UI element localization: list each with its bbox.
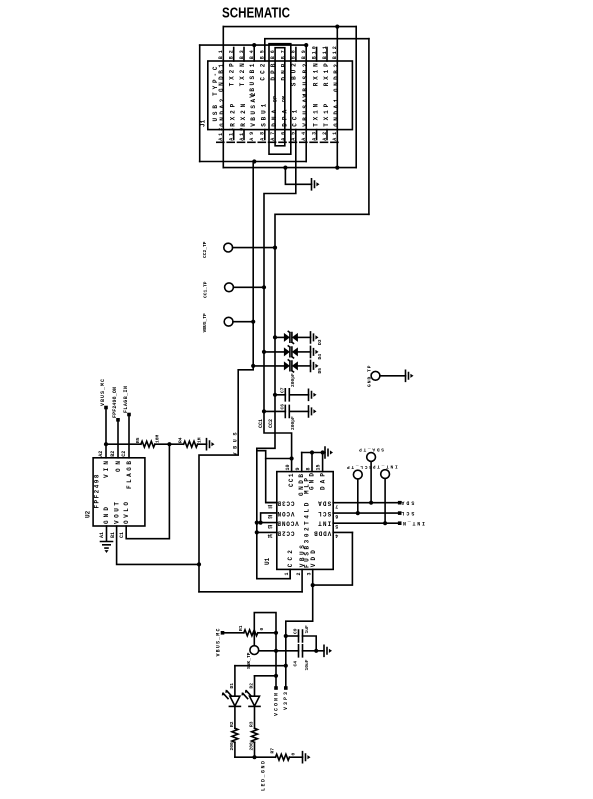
svg-text:GND: GND: [308, 473, 315, 490]
pin B10 lead: [316, 48, 318, 62]
svg-text:200pF: 200pF: [290, 373, 296, 387]
pin B8 lead: [295, 48, 297, 62]
wire VDD down to V3P3 column: [286, 585, 313, 688]
ground: [312, 179, 320, 190]
svg-text:R7: R7: [270, 748, 276, 754]
wire V3P3 row to LED D1: [235, 665, 286, 667]
svg-text:B1: B1: [110, 532, 116, 538]
svg-text:J1: J1: [200, 119, 207, 127]
pin A8 lead: [264, 130, 266, 140]
wire CC1 pin11 branch: [266, 459, 292, 503]
pin B2 lead: [233, 48, 235, 62]
svg-text:14: 14: [268, 533, 273, 539]
svg-text:CC1: CC1: [288, 473, 295, 487]
wire VBUS left vertical: [199, 45, 201, 161]
pin 10 CC1: [290, 456, 294, 460]
ground: [325, 447, 333, 458]
svg-text:CC2_TP: CC2_TP: [202, 241, 208, 258]
svg-text:10: 10: [285, 464, 291, 470]
net flag FPF2498_ON: [112, 387, 120, 422]
svg-text:C7: C7: [280, 387, 286, 393]
svg-text:A11: A11: [229, 128, 235, 141]
wire VIN lead: [105, 408, 107, 458]
pin 8 GND: [311, 453, 313, 472]
ground: [324, 645, 332, 656]
svg-text:1M: 1M: [197, 437, 203, 443]
svg-text:DP: DP: [272, 96, 278, 102]
wire GND right side vertical: [355, 27, 357, 168]
pin 9 GNDB: [301, 453, 303, 472]
wire GND top bus: [223, 26, 356, 28]
net flag VBUS_MC: [100, 379, 108, 409]
svg-text:GND_TP: GND_TP: [366, 365, 372, 387]
wire CC2 column: [257, 214, 369, 578]
svg-text:B10: B10: [311, 46, 317, 59]
pin 5 INT: [333, 522, 400, 524]
svg-text:GND: GND: [103, 507, 110, 524]
svg-text:2: 2: [296, 572, 302, 575]
net flag VBUS_MC bottom: [221, 631, 225, 635]
svg-text:C4: C4: [293, 661, 299, 667]
svg-text:VBUS_MC: VBUS_MC: [216, 629, 222, 657]
svg-text:VBUS_TP: VBUS_TP: [202, 313, 208, 333]
wire FLAGB lead: [128, 415, 130, 458]
wire R5-R4 junction: [155, 443, 184, 445]
svg-text:B2: B2: [110, 451, 116, 457]
svg-text:CC2: CC2: [260, 63, 267, 80]
testpoint SCL_TP: [353, 470, 362, 479]
wire ON lead: [117, 420, 119, 458]
testpoint SDA_TP: [367, 453, 376, 462]
capacitor C9 1uF: [286, 635, 299, 637]
svg-text:SCL: SCL: [401, 510, 414, 516]
svg-text:D1: D1: [229, 683, 235, 689]
testpoint SNK_TP: [250, 646, 259, 655]
pin 2 VBUS: [301, 569, 303, 591]
svg-text:4: 4: [335, 533, 338, 539]
testpoint INT_TP: [381, 470, 390, 479]
pin 4 VDDB: [333, 531, 352, 533]
svg-text:R5: R5: [135, 437, 141, 443]
LED D2: [241, 676, 260, 757]
svg-text:SCL_TP: SCL_TP: [347, 464, 372, 470]
pin 15 DAP: [322, 453, 324, 472]
svg-text:INT: INT: [318, 520, 331, 527]
svg-text:C1: C1: [119, 532, 125, 538]
DP hairpin inner: [275, 48, 285, 146]
pin 3 VDD: [312, 569, 314, 585]
svg-text:VBUS_MC: VBUS_MC: [100, 379, 106, 406]
connector J1 body: [208, 61, 353, 130]
svg-text:D4: D4: [317, 354, 323, 360]
svg-text:5: 5: [335, 523, 338, 529]
wire B12 GNDB2 lead down through body: [336, 27, 338, 168]
wire VDDB wrap to VDD: [313, 532, 353, 585]
pin 11 CC3B: [266, 502, 277, 504]
wire GND stub to ground: [285, 168, 311, 185]
svg-text:VDD: VDD: [310, 550, 317, 567]
ground: [101, 542, 113, 554]
testpoint VBUS_TP: [224, 317, 233, 326]
capacitor C6 on CC1: [262, 404, 317, 430]
wire SNK_TP riser to VCONN column: [254, 613, 276, 688]
wire VBUS bottom bus: [200, 161, 307, 163]
U1 FUSB302: [264, 472, 333, 570]
wire VBUS through body B9/A4: [305, 45, 307, 161]
wire CC2 top: [265, 39, 369, 61]
svg-text:0: 0: [259, 628, 265, 631]
svg-text:SCL: SCL: [318, 510, 331, 517]
svg-text:U1: U1: [264, 557, 271, 565]
svg-text:15: 15: [316, 464, 322, 470]
svg-text:9: 9: [295, 467, 301, 470]
TVS D3 on CC2: [273, 331, 323, 345]
svg-text:R4: R4: [178, 437, 184, 443]
wire LED_GND row: [235, 756, 276, 758]
svg-text:200: 200: [229, 742, 235, 751]
net flag V3P3: [284, 686, 288, 690]
svg-text:10M: 10M: [155, 434, 161, 443]
pin A10 lead: [243, 130, 245, 140]
testpoint CC2_TP: [224, 243, 233, 252]
TVS D4 on CC1: [262, 346, 323, 360]
svg-text:SDA_TP: SDA_TP: [359, 447, 384, 453]
svg-text:FPF2498_ON: FPF2498_ON: [112, 387, 118, 418]
svg-text:SDA: SDA: [401, 500, 414, 506]
wire B4 lead: [253, 45, 255, 61]
pin 13 VCONB: [257, 522, 277, 524]
testpoint GND_TP right: [366, 365, 413, 387]
svg-text:12: 12: [268, 513, 273, 519]
svg-text:LED_GND: LED_GND: [261, 761, 267, 791]
ground: [303, 752, 311, 763]
svg-text:1uF: 1uF: [304, 625, 310, 634]
svg-text:200: 200: [248, 742, 254, 751]
svg-text:VCONB: VCONB: [277, 520, 299, 527]
wire VOUT to VBUS column: [117, 526, 199, 564]
net flag VCONN: [274, 686, 278, 690]
resistor R7 0: [276, 754, 290, 760]
svg-text:D3: D3: [317, 339, 323, 345]
svg-text:SDA: SDA: [318, 500, 331, 507]
svg-text:D5: D5: [317, 368, 323, 374]
pin 12 VCON: [261, 513, 277, 523]
svg-text:VDDB: VDDB: [314, 529, 331, 536]
capacitor C7 on CC2: [273, 373, 317, 401]
net flag SCL: [398, 511, 402, 515]
wire VBUS row to pin2: [199, 591, 302, 593]
wire TP to VCONN column and C4: [259, 650, 299, 652]
svg-text:10uF: 10uF: [304, 659, 310, 670]
svg-text:D2: D2: [248, 683, 254, 689]
wire OVLO to divider tap: [126, 444, 169, 539]
svg-text:B11: B11: [322, 46, 328, 59]
svg-text:13: 13: [268, 523, 273, 529]
svg-text:1: 1: [284, 572, 290, 575]
svg-text:R2: R2: [229, 721, 235, 727]
pin A3 lead: [316, 130, 318, 140]
wire CC2 right vertical: [368, 39, 370, 215]
svg-text:11: 11: [268, 503, 273, 509]
svg-text:R3: R3: [248, 721, 254, 727]
svg-text:FLAGB_IN: FLAGB_IN: [123, 386, 129, 413]
pin B3 lead: [243, 48, 245, 62]
svg-text:DNB: DNB: [280, 63, 287, 80]
net flag FLAGB_IN: [123, 386, 131, 416]
svg-text:CC2B: CC2B: [277, 529, 294, 536]
svg-text:A2: A2: [98, 451, 104, 457]
wire CC1 column from A5: [264, 130, 296, 472]
svg-text:C9: C9: [293, 628, 299, 634]
svg-text:C6: C6: [280, 404, 286, 410]
TVS D5 on VBUS: [251, 360, 323, 374]
pin 1 CC2: [289, 569, 291, 578]
svg-text:V3P3: V3P3: [283, 692, 289, 710]
svg-text:DAP: DAP: [319, 473, 326, 490]
svg-text:6: 6: [335, 513, 338, 519]
ground: [207, 439, 215, 450]
svg-text:R1: R1: [238, 625, 244, 631]
LED D1: [222, 666, 241, 758]
resistor R1 0: [224, 632, 244, 634]
svg-text:DM: DM: [282, 96, 288, 102]
svg-text:CC1: CC1: [258, 419, 264, 428]
svg-text:VIN: VIN: [103, 461, 110, 478]
wire GNDB/GND/DAP bus to ground: [302, 452, 325, 454]
wire B1 GNDB1 lead down through body: [222, 27, 224, 168]
net flag INT_N: [398, 521, 402, 525]
svg-text:CC3B: CC3B: [277, 500, 294, 507]
U2 FPF2498: [85, 458, 145, 526]
capacitor C4 10uF: [299, 645, 303, 657]
testpoint CC1_TP: [225, 283, 234, 292]
pin A2 lead: [326, 130, 328, 140]
svg-text:INT_TP: INT_TP: [372, 464, 397, 470]
svg-text:C2: C2: [121, 451, 127, 457]
pin 14 CC2B: [257, 531, 277, 533]
svg-text:3: 3: [307, 572, 313, 575]
svg-text:CC1: CC1: [292, 109, 299, 126]
wire VCONN row to LED D2: [255, 675, 277, 677]
svg-text:CC2: CC2: [268, 419, 274, 428]
svg-text:CC2: CC2: [287, 550, 294, 567]
svg-text:0: 0: [291, 753, 297, 756]
pin A11 lead: [233, 130, 235, 140]
svg-text:8: 8: [305, 467, 311, 470]
DM hairpin outer: [269, 44, 291, 155]
wire VBUS column: [199, 162, 253, 592]
svg-text:7: 7: [335, 503, 338, 509]
svg-text:A1: A1: [99, 532, 105, 538]
wire GND bottom bus: [223, 167, 356, 169]
resistor R5 10M: [106, 443, 141, 445]
wire GND lead: [106, 526, 108, 541]
svg-text:SCHEMATIC: SCHEMATIC: [222, 6, 290, 22]
pin 6 SCL: [333, 512, 400, 514]
svg-text:200pF: 200pF: [290, 416, 296, 430]
svg-text:CC1_TP: CC1_TP: [203, 281, 209, 298]
net flag SDA: [398, 501, 402, 505]
svg-text:U2: U2: [85, 510, 92, 518]
wire VBUS top: [200, 44, 307, 46]
pin 7 SDA: [333, 502, 400, 504]
pin B11 lead: [326, 48, 328, 62]
svg-text:VCON: VCON: [277, 510, 294, 517]
svg-text:A10: A10: [239, 128, 245, 141]
J1 pin leads and labels: [217, 46, 340, 142]
resistor R4 1M: [184, 441, 198, 447]
